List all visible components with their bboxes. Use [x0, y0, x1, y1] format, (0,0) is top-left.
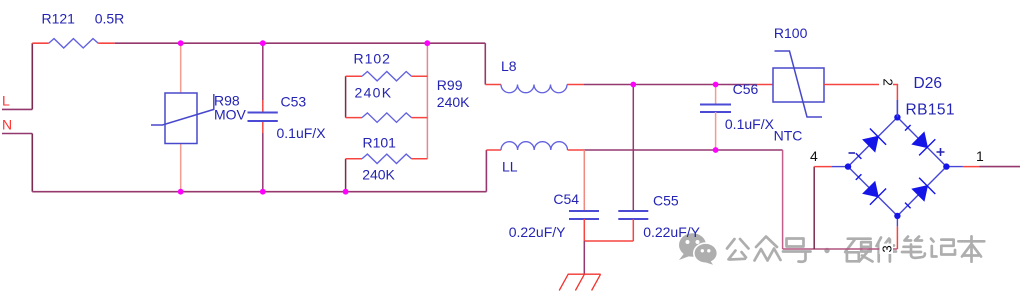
capacitor C53 plates — [248, 113, 278, 122]
svg-text:LL: LL — [502, 158, 518, 174]
svg-text:C53: C53 — [281, 94, 307, 110]
pin number 3 — [880, 244, 895, 255]
watermark dot — [824, 248, 829, 253]
svg-text:C54: C54 — [553, 191, 579, 207]
thermistor R100 right pin to bridge pin2 — [824, 85, 897, 101]
resistor R101 zigzag — [362, 154, 412, 163]
wire: top rail — [115, 42, 486, 44]
resistor R99 zigzag — [362, 113, 412, 122]
junction dot L8 rail at C56 — [713, 82, 719, 88]
capacitor C55 bottom lead — [632, 219, 634, 241]
svg-text:0.1uF/X: 0.1uF/X — [277, 125, 327, 141]
junction dot L8 rail at C55 — [630, 82, 636, 88]
ground symbol — [559, 274, 600, 290]
junction dot bottom rail at C53 — [260, 189, 266, 195]
capacitor C54 riser — [583, 150, 585, 211]
resistor R121 zigzag — [49, 39, 98, 48]
svg-text:R121: R121 — [42, 10, 76, 26]
resistor R102 pins — [346, 75, 428, 77]
ground riser — [583, 241, 585, 274]
inductor LL coil — [501, 142, 568, 150]
capacitor C56 bottom lead — [715, 112, 717, 150]
watermark wechat logo — [679, 233, 718, 265]
wire: L input horizontal — [2, 108, 32, 110]
bridge pin3 red lead — [896, 226, 898, 249]
pin number 2 — [879, 76, 896, 93]
svg-text:C56: C56 — [733, 81, 759, 97]
output wire to edge — [980, 166, 1020, 168]
resistor network left vertical R102-R99 — [345, 76, 347, 117]
svg-text:RB151: RB151 — [906, 102, 955, 119]
bridge diode top-right — [905, 125, 935, 155]
capacitor C53 riser top — [262, 43, 264, 100]
bridge diode bottom-right — [905, 178, 935, 208]
label plus — [937, 148, 945, 156]
wire: riser bottom rail up to LL — [485, 150, 487, 192]
varistor R98 riser bottom — [180, 144, 182, 192]
junction dot top rail at C53 — [260, 40, 266, 46]
resistor R102 zigzag — [362, 72, 412, 81]
svg-text:0.1uF/X: 0.1uF/X — [725, 116, 775, 132]
capacitor C53 pin bottom — [262, 121, 264, 133]
svg-text:R101: R101 — [363, 135, 397, 151]
svg-text:240K: 240K — [362, 167, 395, 183]
bridge diode top-left — [856, 129, 886, 159]
wire: LL rail to bend — [584, 149, 782, 151]
wire: L riser to top rail — [31, 43, 33, 109]
svg-text:2: 2 — [881, 79, 896, 86]
wire: pin4 drop — [813, 167, 815, 249]
bridge diode bottom-left — [856, 174, 886, 204]
capacitor C53 riser bottom — [262, 133, 264, 192]
svg-text:1: 1 — [976, 148, 984, 164]
thermistor R100 left pin — [757, 84, 773, 86]
svg-text:MOV: MOV — [214, 106, 247, 122]
capacitor C56 riser top — [715, 85, 717, 105]
inductor LL pins — [486, 149, 584, 151]
varistor R98 riser top — [180, 43, 182, 93]
label minus — [849, 152, 856, 154]
capacitor C53 pin top — [262, 100, 264, 113]
resistor R101 left vertical to bottom rail — [345, 159, 347, 192]
resistor R121 pins — [32, 42, 114, 44]
svg-text:L: L — [2, 93, 10, 109]
svg-text:3: 3 — [880, 245, 895, 252]
wire: N riser to bottom rail — [31, 134, 33, 192]
svg-text:NTC: NTC — [774, 128, 803, 144]
svg-text:0.5R: 0.5R — [95, 10, 125, 26]
wire: bottom run to bridge pin3 — [783, 248, 898, 250]
wire: bottom rail — [32, 191, 486, 193]
capacitor C54 plates — [569, 211, 599, 219]
output wire pin1 red stub — [963, 166, 980, 168]
bridge pin2 blue lead — [896, 100, 898, 117]
capacitor C56 plates — [700, 105, 731, 113]
bridge vertex dots — [845, 114, 950, 219]
svg-text:L8: L8 — [501, 58, 517, 74]
watermark text 硬件笔记本 — [845, 236, 984, 261]
resistor network right vertical from top rail — [426, 43, 428, 159]
svg-text:R100: R100 — [774, 25, 808, 41]
watermark text 公众号 — [727, 237, 811, 262]
resistor R99 pins — [346, 117, 428, 119]
junction dot LL rail at C56 — [713, 147, 719, 153]
svg-text:240K: 240K — [437, 94, 470, 110]
svg-text:4: 4 — [810, 148, 818, 164]
svg-text:C55: C55 — [653, 192, 679, 208]
capacitor C54 bottom lead — [584, 219, 633, 241]
wire: LL bend down — [782, 150, 784, 249]
svg-text:0.22uF/Y: 0.22uF/Y — [509, 224, 566, 240]
inductor L8 coil — [501, 85, 567, 93]
svg-text:N: N — [2, 116, 12, 132]
junction dot top rail at R network — [424, 40, 430, 46]
resistor R101 pins — [346, 158, 428, 160]
capacitor C55 plates — [618, 211, 648, 219]
svg-text:0.22uF/Y: 0.22uF/Y — [643, 224, 700, 240]
junction dot top rail at MOV — [178, 40, 184, 46]
inductor L8 pins — [485, 84, 584, 86]
svg-text:240K: 240K — [355, 84, 393, 100]
wire: N input horizontal — [2, 133, 32, 135]
svg-text:D26: D26 — [914, 75, 942, 92]
svg-text:R99: R99 — [437, 77, 463, 93]
svg-text:R102: R102 — [354, 51, 391, 67]
varistor R98 body — [151, 93, 214, 144]
junction dot bottom rail at R101 — [343, 189, 349, 195]
junction dot bottom rail at MOV — [178, 189, 184, 195]
capacitor C55 riser from top rail — [632, 85, 634, 212]
bridge D26 body — [832, 100, 963, 226]
wire: top rail drop to L8 — [484, 43, 486, 84]
wire: L8 to NTC rail — [584, 84, 757, 86]
thermistor R100 body — [773, 51, 824, 117]
wire: pin4 stub — [814, 166, 832, 168]
